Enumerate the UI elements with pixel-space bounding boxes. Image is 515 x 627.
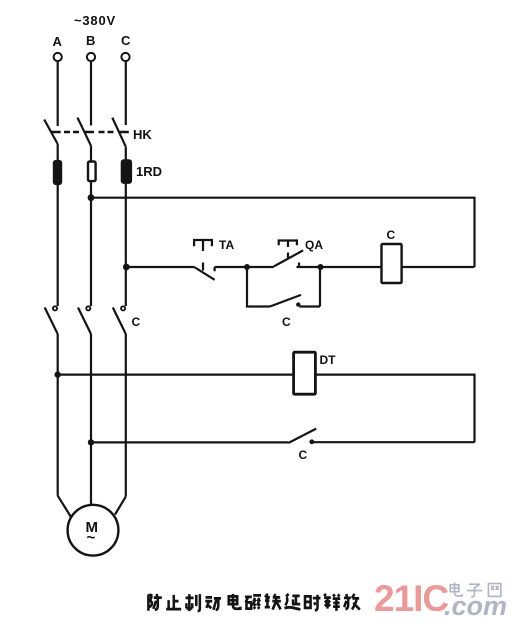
- svg-text:1RD: 1RD: [136, 164, 162, 179]
- svg-text:C: C: [121, 33, 131, 48]
- svg-text:~380V: ~380V: [74, 13, 116, 28]
- svg-text:DT: DT: [320, 353, 337, 367]
- svg-text:QA: QA: [305, 238, 323, 252]
- svg-text:.com: .com: [444, 591, 507, 621]
- svg-text:B: B: [86, 33, 95, 48]
- svg-text:C: C: [299, 448, 308, 462]
- svg-text:A: A: [53, 34, 63, 49]
- svg-text:HK: HK: [133, 127, 152, 142]
- svg-text:~: ~: [87, 530, 96, 547]
- svg-text:C: C: [387, 228, 396, 242]
- svg-text:21IC: 21IC: [374, 578, 448, 619]
- svg-text:C: C: [282, 315, 291, 329]
- svg-text:C: C: [132, 315, 141, 329]
- svg-text:TA: TA: [219, 238, 234, 252]
